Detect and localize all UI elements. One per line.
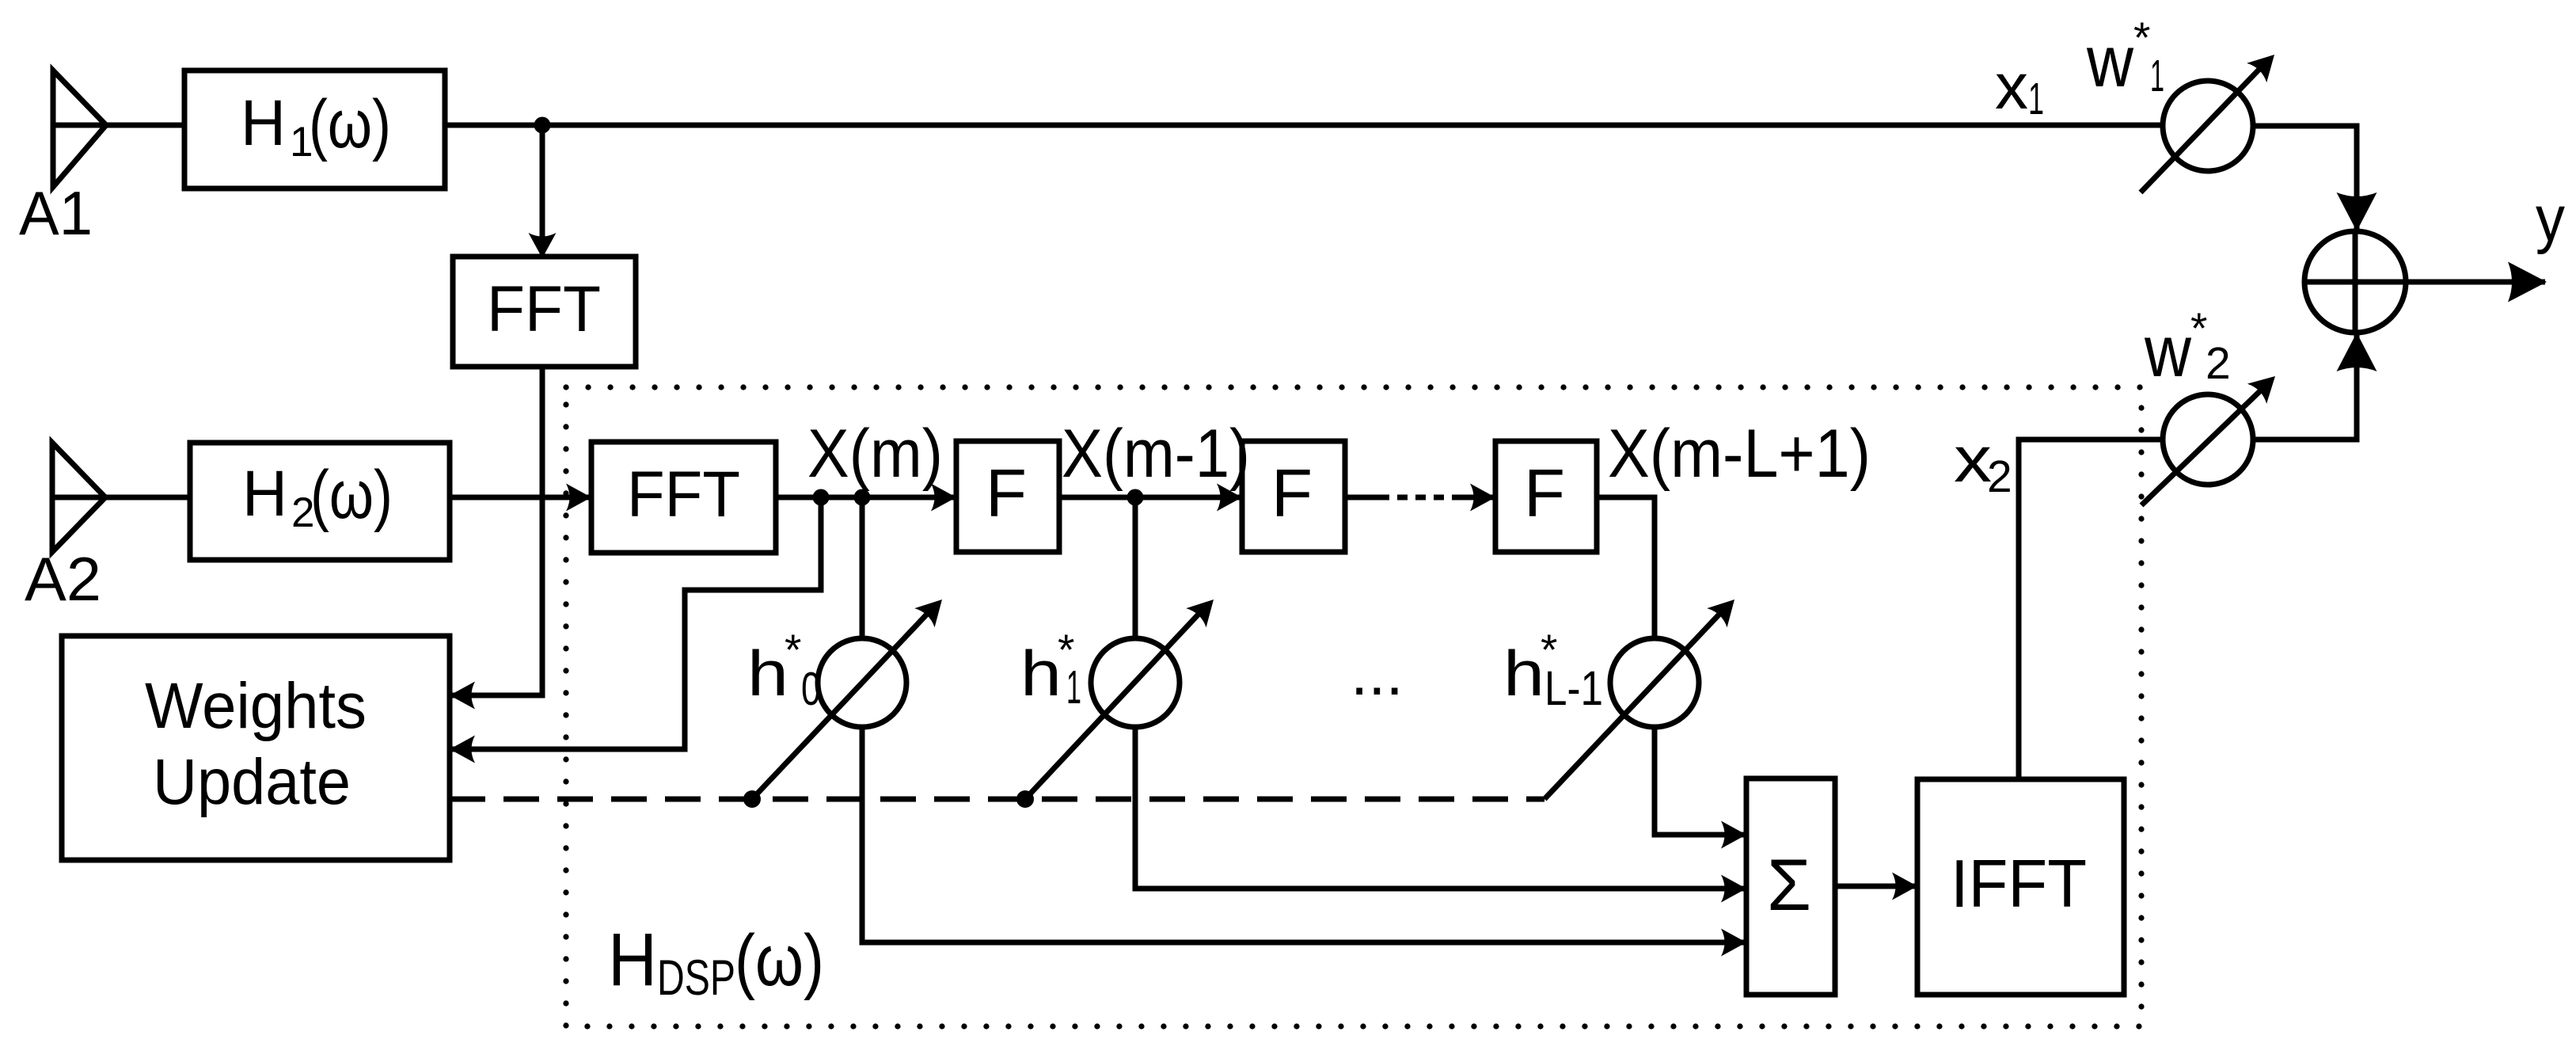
svg-text:A1: A1 [19, 178, 93, 248]
svg-text:h: h [1020, 638, 1062, 710]
svg-text:x: x [1995, 51, 2028, 123]
svg-text:A2: A2 [25, 544, 101, 614]
svg-text:h: h [1503, 638, 1544, 710]
svg-text:X(m-L+1): X(m-L+1) [1608, 416, 1871, 492]
svg-text:*: * [785, 625, 801, 674]
svg-text:x: x [1954, 424, 1992, 496]
svg-text:w: w [2086, 21, 2133, 102]
svg-text:y: y [2536, 183, 2565, 255]
svg-text:X(m-1): X(m-1) [1062, 416, 1250, 492]
svg-text:Update: Update [153, 746, 351, 818]
svg-text:F: F [1271, 456, 1313, 531]
svg-text:H: H [242, 458, 287, 530]
svg-text:L-1: L-1 [1544, 661, 1603, 715]
svg-text:h: h [747, 638, 788, 710]
svg-text:X(m): X(m) [807, 416, 943, 492]
svg-text:...: ... [1351, 638, 1404, 708]
svg-text:F: F [1524, 456, 1565, 531]
svg-text:*: * [2133, 13, 2150, 62]
svg-text:Weights: Weights [145, 670, 367, 742]
svg-text:IFFT: IFFT [1951, 847, 2087, 922]
svg-text:FFT: FFT [627, 459, 740, 531]
svg-text:H: H [608, 918, 657, 1002]
svg-text:(ω): (ω) [735, 920, 824, 1001]
svg-text:1: 1 [1066, 661, 1081, 714]
svg-text:1: 1 [2150, 51, 2164, 101]
svg-text:2: 2 [2206, 338, 2231, 389]
svg-text:w: w [2144, 311, 2191, 392]
svg-text:(ω): (ω) [309, 86, 391, 162]
svg-text:DSP: DSP [657, 950, 735, 1006]
svg-text:F: F [986, 456, 1027, 531]
svg-text:(ω): (ω) [310, 457, 393, 533]
svg-text:Σ: Σ [1767, 845, 1811, 926]
svg-text:0: 0 [801, 663, 821, 715]
svg-text:1: 1 [2028, 74, 2044, 124]
svg-text:H: H [241, 87, 286, 159]
svg-text:2: 2 [1987, 451, 2012, 502]
svg-text:FFT: FFT [487, 273, 601, 345]
